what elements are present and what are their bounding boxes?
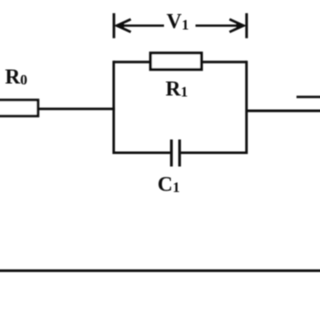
- wire: output to right edge: [247, 109, 320, 112]
- wire: cropped element at right edge: [297, 96, 320, 98]
- wire: loop bottom left (to C1 left plate): [114, 152, 170, 155]
- label R0: [5, 65, 27, 89]
- wire: bottom rail: [0, 269, 320, 272]
- wire: loop right vertical: [245, 61, 248, 154]
- wire: loop left vertical: [112, 61, 115, 154]
- wire: loop top: [114, 61, 247, 64]
- resistor R0: [0, 100, 38, 116]
- label C1: [158, 172, 180, 196]
- label R1: [166, 77, 188, 101]
- capacitor C1: [171, 140, 179, 167]
- wire: R0 to parallel loop: [36, 108, 115, 111]
- label V1: [167, 9, 189, 34]
- voltage annotation V1 (measurement bars and arrows): [114, 13, 247, 38]
- resistor R1: [151, 53, 202, 70]
- wire: loop bottom right (from C1 right plate): [181, 152, 247, 155]
